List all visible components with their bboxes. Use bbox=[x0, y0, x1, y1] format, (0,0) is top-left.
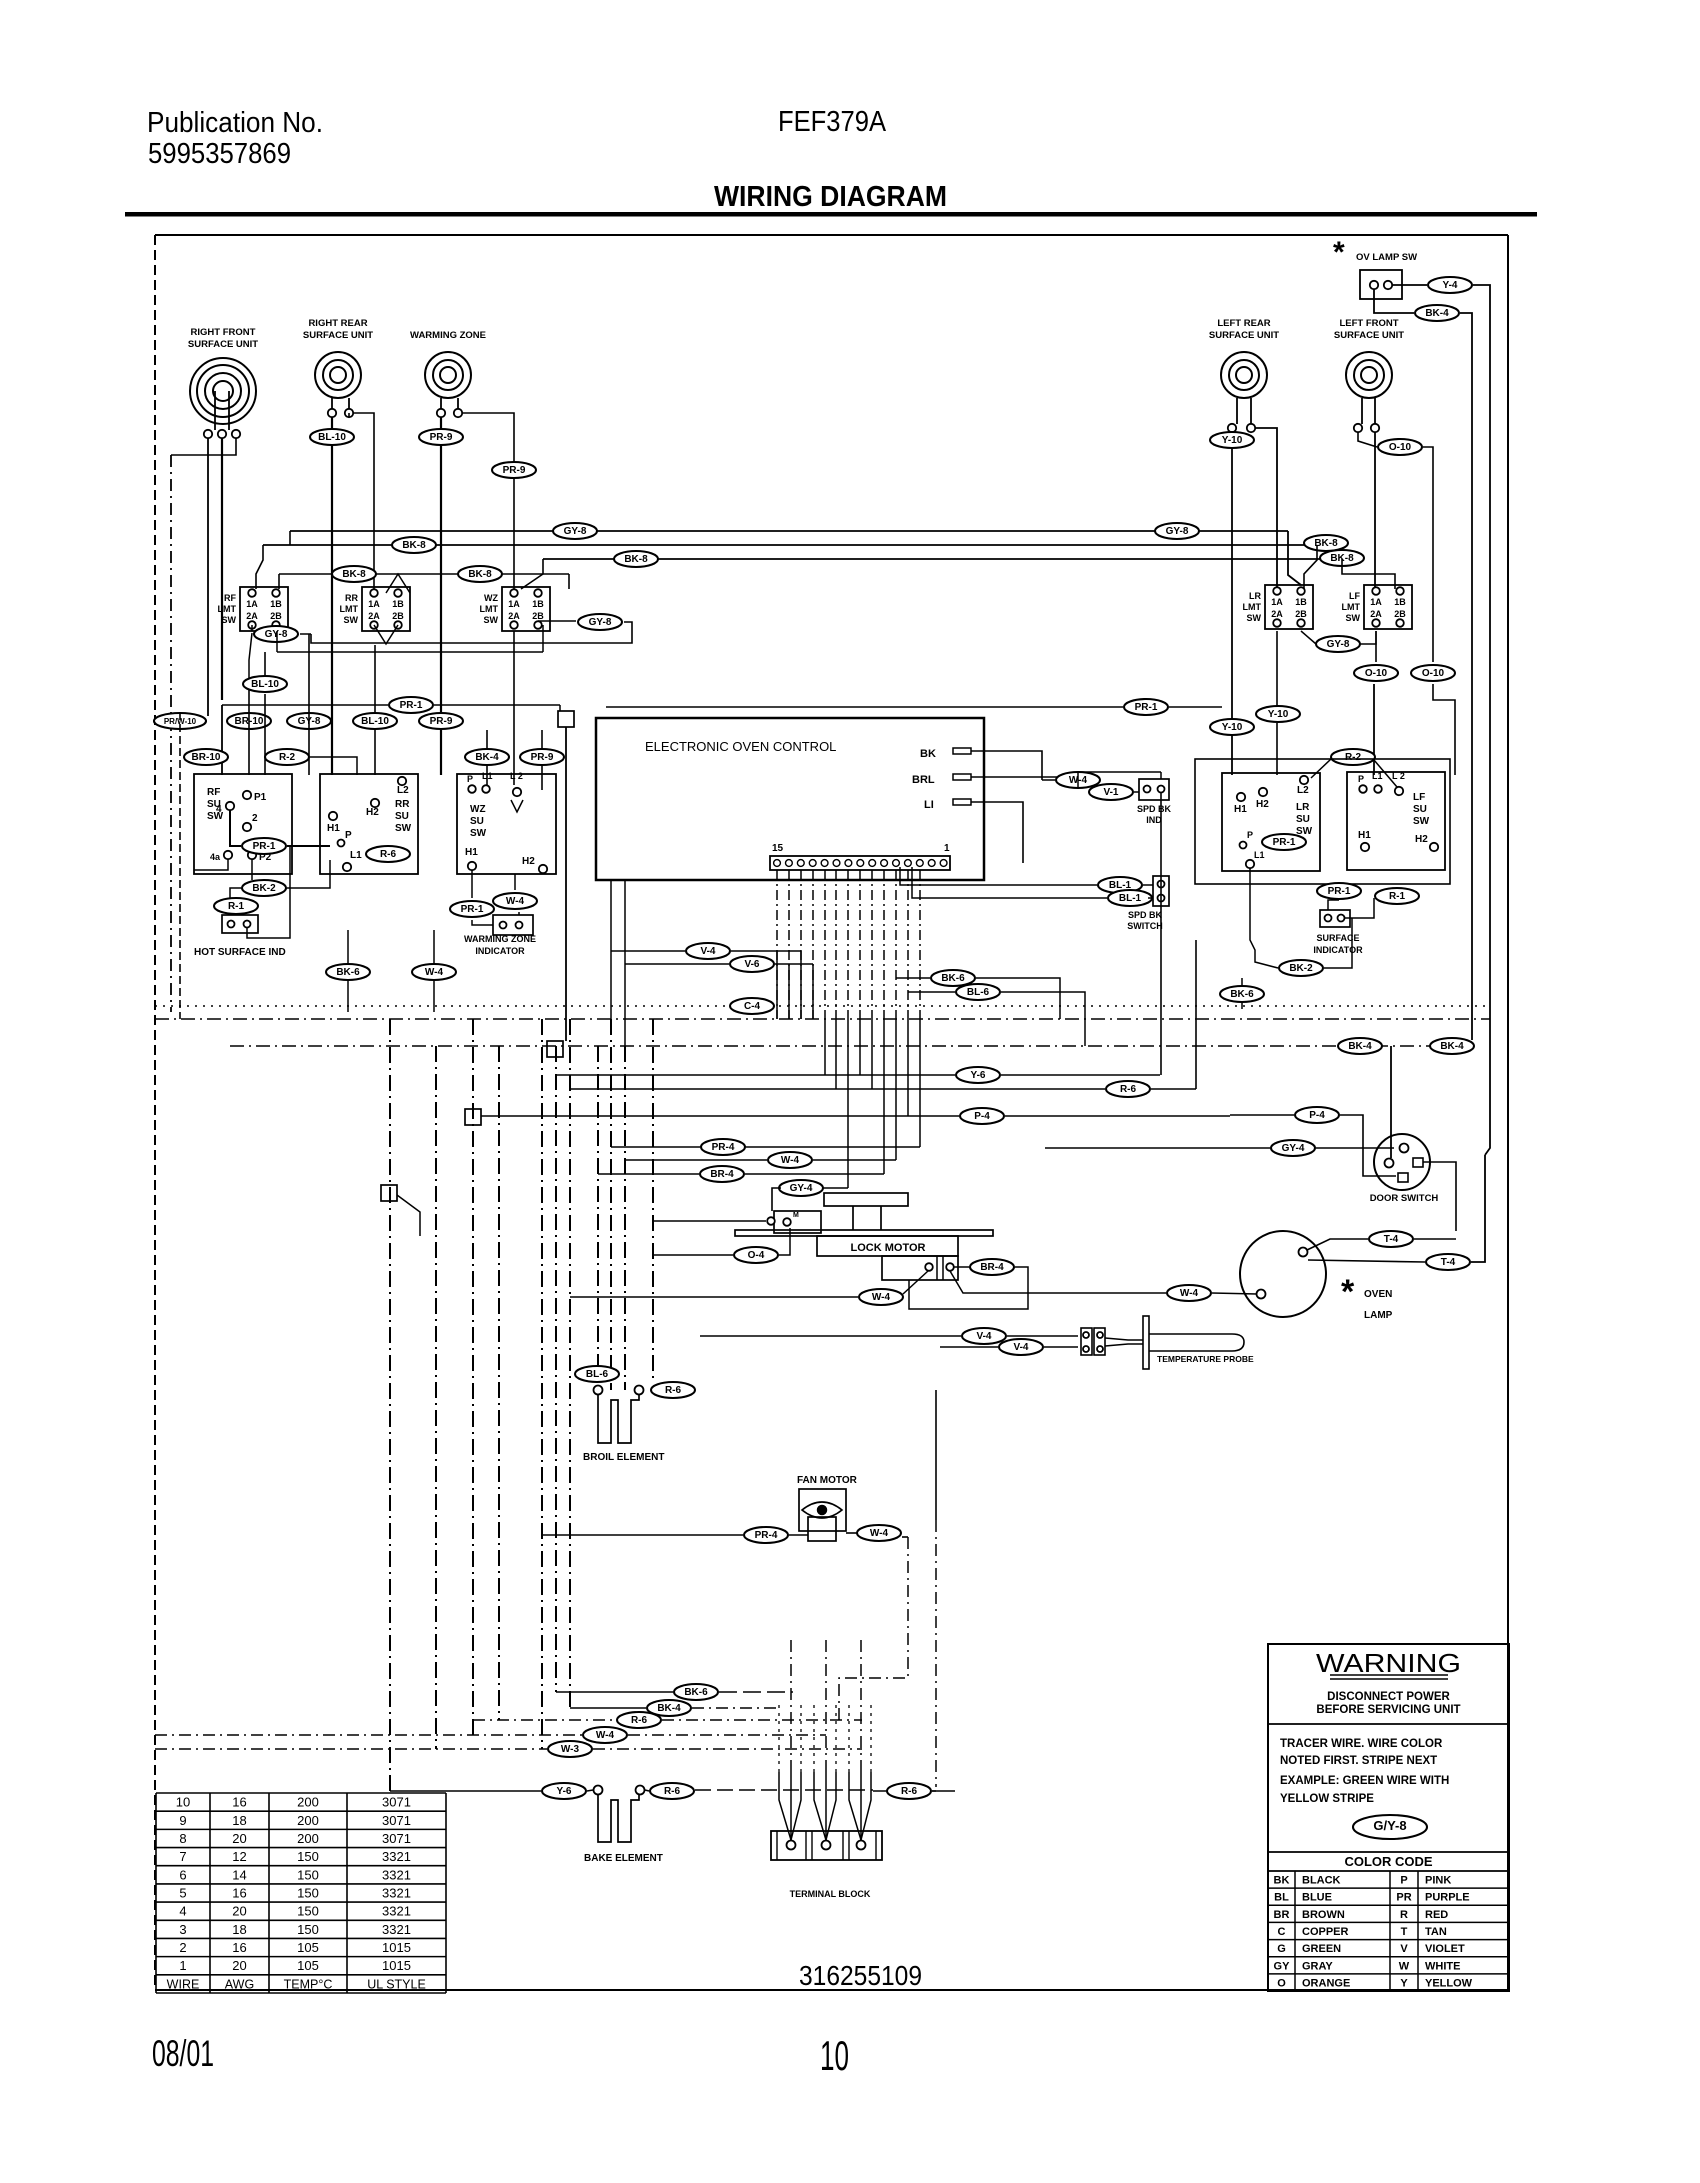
svg-text:P1: P1 bbox=[254, 792, 267, 803]
svg-text:H2: H2 bbox=[1256, 799, 1269, 810]
svg-text:BK-4: BK-4 bbox=[657, 1703, 681, 1714]
svg-text:PR-1: PR-1 bbox=[461, 904, 484, 915]
svg-text:PR-4: PR-4 bbox=[712, 1142, 735, 1153]
svg-text:R-6: R-6 bbox=[1120, 1084, 1137, 1095]
svg-text:BK-4: BK-4 bbox=[475, 752, 499, 763]
svg-text:WIRING DIAGRAM: WIRING DIAGRAM bbox=[714, 181, 947, 213]
svg-text:GY-4: GY-4 bbox=[790, 1183, 813, 1194]
svg-text:RED: RED bbox=[1425, 1909, 1448, 1921]
svg-text:1A: 1A bbox=[1271, 597, 1283, 607]
svg-text:14: 14 bbox=[232, 1867, 246, 1882]
svg-text:2A: 2A bbox=[508, 611, 520, 621]
svg-text:Y-10: Y-10 bbox=[1222, 435, 1243, 446]
svg-text:W-4: W-4 bbox=[781, 1155, 800, 1166]
svg-text:2: 2 bbox=[252, 813, 258, 824]
svg-text:1A: 1A bbox=[368, 599, 380, 609]
svg-text:1B: 1B bbox=[1394, 597, 1406, 607]
svg-text:LF: LF bbox=[1349, 591, 1360, 601]
svg-text:V-4: V-4 bbox=[700, 946, 715, 957]
svg-text:W-4: W-4 bbox=[506, 896, 525, 907]
svg-text:RR: RR bbox=[345, 593, 358, 603]
svg-text:BR-4: BR-4 bbox=[980, 1262, 1004, 1273]
svg-text:RR: RR bbox=[395, 799, 410, 810]
svg-text:C: C bbox=[1278, 1926, 1286, 1938]
svg-text:GY-8: GY-8 bbox=[1166, 526, 1189, 537]
svg-text:PR-1: PR-1 bbox=[400, 700, 423, 711]
svg-text:Publication No.: Publication No. bbox=[147, 107, 323, 139]
svg-text:PR-4: PR-4 bbox=[755, 1530, 778, 1541]
svg-text:GREEN: GREEN bbox=[1302, 1943, 1341, 1955]
svg-text:316255109: 316255109 bbox=[799, 1960, 922, 1991]
svg-text:150: 150 bbox=[297, 1922, 319, 1937]
svg-text:INDICATOR: INDICATOR bbox=[1313, 945, 1363, 955]
svg-text:150: 150 bbox=[297, 1886, 319, 1901]
svg-text:H1: H1 bbox=[327, 823, 340, 834]
svg-text:LI: LI bbox=[924, 799, 934, 811]
svg-text:1015: 1015 bbox=[382, 1958, 411, 1973]
svg-text:H2: H2 bbox=[366, 807, 379, 818]
svg-text:GY-8: GY-8 bbox=[265, 629, 288, 640]
svg-text:2B: 2B bbox=[270, 611, 282, 621]
svg-text:BR-4: BR-4 bbox=[710, 1169, 734, 1180]
svg-text:T-4: T-4 bbox=[1384, 1234, 1399, 1245]
svg-text:R-2: R-2 bbox=[279, 752, 296, 763]
svg-text:TRACER WIRE. WIRE COLOR: TRACER WIRE. WIRE COLOR bbox=[1280, 1738, 1443, 1750]
svg-text:1B: 1B bbox=[270, 599, 282, 609]
svg-text:SW: SW bbox=[395, 823, 412, 834]
svg-text:SW: SW bbox=[470, 828, 487, 839]
svg-text:OVEN: OVEN bbox=[1364, 1289, 1392, 1300]
svg-text:WIRE: WIRE bbox=[167, 1977, 200, 1991]
svg-text:O-4: O-4 bbox=[748, 1250, 765, 1261]
svg-text:PR-9: PR-9 bbox=[503, 465, 526, 476]
svg-text:FAN MOTOR: FAN MOTOR bbox=[797, 1475, 858, 1486]
svg-text:R-6: R-6 bbox=[901, 1786, 918, 1797]
svg-text:ORANGE: ORANGE bbox=[1302, 1977, 1350, 1989]
svg-text:FEF379A: FEF379A bbox=[778, 106, 887, 138]
svg-text:1: 1 bbox=[944, 843, 950, 854]
svg-text:PR-9: PR-9 bbox=[430, 432, 453, 443]
svg-text:LF: LF bbox=[1413, 792, 1425, 803]
svg-text:W-3: W-3 bbox=[561, 1744, 580, 1755]
svg-text:VIOLET: VIOLET bbox=[1425, 1943, 1465, 1955]
svg-text:15: 15 bbox=[772, 843, 784, 854]
svg-text:H2: H2 bbox=[1415, 834, 1428, 845]
svg-text:BK-4: BK-4 bbox=[1440, 1041, 1464, 1052]
svg-text:NOTED FIRST. STRIPE NEXT: NOTED FIRST. STRIPE NEXT bbox=[1280, 1755, 1437, 1767]
svg-text:3321: 3321 bbox=[382, 1886, 411, 1901]
svg-text:1A: 1A bbox=[508, 599, 520, 609]
svg-text:LMT: LMT bbox=[480, 604, 499, 614]
svg-text:INDICATOR: INDICATOR bbox=[475, 946, 525, 956]
svg-text:Y-10: Y-10 bbox=[1222, 722, 1243, 733]
svg-text:6: 6 bbox=[179, 1867, 186, 1882]
svg-text:BROWN: BROWN bbox=[1302, 1909, 1345, 1921]
svg-text:P-4: P-4 bbox=[1309, 1110, 1325, 1121]
svg-text:PURPLE: PURPLE bbox=[1425, 1892, 1470, 1904]
svg-text:BL-10: BL-10 bbox=[361, 716, 389, 727]
svg-text:ELECTRONIC OVEN CONTROL: ELECTRONIC OVEN CONTROL bbox=[645, 739, 836, 754]
svg-text:BK-8: BK-8 bbox=[468, 569, 492, 580]
svg-text:COPPER: COPPER bbox=[1302, 1926, 1349, 1938]
svg-text:9: 9 bbox=[179, 1813, 186, 1828]
svg-text:BL: BL bbox=[1274, 1892, 1289, 1904]
svg-text:BLACK: BLACK bbox=[1302, 1875, 1341, 1887]
svg-text:Y-10: Y-10 bbox=[1268, 709, 1289, 720]
svg-text:BR-10: BR-10 bbox=[192, 752, 221, 763]
svg-text:UL STYLE: UL STYLE bbox=[367, 1977, 426, 1991]
svg-text:LMT: LMT bbox=[1342, 602, 1361, 612]
svg-text:GY-8: GY-8 bbox=[1327, 639, 1350, 650]
svg-text:SU: SU bbox=[395, 811, 409, 822]
svg-text:12: 12 bbox=[232, 1849, 246, 1864]
svg-text:BK-8: BK-8 bbox=[402, 540, 426, 551]
svg-text:18: 18 bbox=[232, 1813, 246, 1828]
svg-text:4: 4 bbox=[179, 1904, 186, 1919]
svg-text:3071: 3071 bbox=[382, 1813, 411, 1828]
svg-text:LAMP: LAMP bbox=[1364, 1310, 1393, 1321]
svg-text:M: M bbox=[793, 1212, 799, 1219]
svg-text:R-6: R-6 bbox=[664, 1786, 681, 1797]
svg-text:R-6: R-6 bbox=[665, 1385, 682, 1396]
svg-text:150: 150 bbox=[297, 1904, 319, 1919]
svg-text:P: P bbox=[1247, 830, 1253, 840]
svg-text:SPD BK: SPD BK bbox=[1128, 910, 1163, 920]
svg-text:BROIL ELEMENT: BROIL ELEMENT bbox=[583, 1452, 664, 1463]
svg-text:P: P bbox=[345, 830, 352, 841]
svg-text:V: V bbox=[1400, 1943, 1408, 1955]
svg-text:SURFACE UNIT: SURFACE UNIT bbox=[188, 339, 258, 350]
svg-text:BK: BK bbox=[1274, 1875, 1290, 1887]
svg-text:4a: 4a bbox=[210, 852, 221, 862]
svg-text:SW: SW bbox=[1247, 613, 1262, 623]
svg-text:LEFT FRONT: LEFT FRONT bbox=[1339, 318, 1398, 329]
svg-text:GY-4: GY-4 bbox=[1282, 1143, 1305, 1154]
svg-text:8: 8 bbox=[179, 1831, 186, 1846]
svg-text:L1: L1 bbox=[482, 771, 493, 781]
svg-text:SURFACE UNIT: SURFACE UNIT bbox=[1334, 330, 1404, 341]
svg-text:BL-6: BL-6 bbox=[586, 1369, 609, 1380]
svg-text:BK-4: BK-4 bbox=[1425, 308, 1449, 319]
svg-text:LMT: LMT bbox=[218, 604, 237, 614]
svg-text:1B: 1B bbox=[392, 599, 404, 609]
svg-text:5: 5 bbox=[179, 1886, 186, 1901]
svg-text:3321: 3321 bbox=[382, 1904, 411, 1919]
svg-text:PR-1: PR-1 bbox=[1135, 702, 1158, 713]
svg-text:LMT: LMT bbox=[1243, 602, 1262, 612]
svg-text:200: 200 bbox=[297, 1831, 319, 1846]
svg-text:V-1: V-1 bbox=[1103, 787, 1118, 798]
svg-text:*: * bbox=[1333, 236, 1345, 269]
svg-text:PR-1: PR-1 bbox=[1328, 886, 1351, 897]
svg-text:WZ: WZ bbox=[484, 593, 498, 603]
svg-text:2A: 2A bbox=[1271, 609, 1283, 619]
svg-text:BL-10: BL-10 bbox=[318, 432, 346, 443]
svg-text:PINK: PINK bbox=[1425, 1875, 1451, 1887]
svg-text:RIGHT REAR: RIGHT REAR bbox=[308, 318, 367, 329]
svg-text:BL-6: BL-6 bbox=[967, 987, 990, 998]
svg-text:150: 150 bbox=[297, 1849, 319, 1864]
svg-text:YELLOW STRIPE: YELLOW STRIPE bbox=[1280, 1793, 1374, 1805]
svg-text:Y-6: Y-6 bbox=[970, 1070, 985, 1081]
svg-text:SPD BK: SPD BK bbox=[1137, 804, 1172, 814]
svg-text:08/01: 08/01 bbox=[152, 2033, 214, 2074]
svg-text:W-4: W-4 bbox=[1180, 1288, 1199, 1299]
svg-text:COLOR CODE: COLOR CODE bbox=[1344, 1854, 1432, 1869]
svg-text:G: G bbox=[1277, 1943, 1286, 1955]
svg-text:20: 20 bbox=[232, 1831, 246, 1846]
svg-text:L1: L1 bbox=[1372, 771, 1383, 781]
svg-text:2B: 2B bbox=[532, 611, 544, 621]
svg-text:BK-8: BK-8 bbox=[1314, 538, 1338, 549]
svg-text:1A: 1A bbox=[246, 599, 258, 609]
svg-text:L1: L1 bbox=[350, 850, 362, 861]
svg-text:SURFACE: SURFACE bbox=[1316, 933, 1359, 943]
svg-text:SURFACE UNIT: SURFACE UNIT bbox=[303, 330, 373, 341]
svg-text:SU: SU bbox=[1413, 804, 1427, 815]
svg-text:RIGHT FRONT: RIGHT FRONT bbox=[191, 327, 256, 338]
svg-text:WZ: WZ bbox=[470, 804, 486, 815]
svg-text:LOCK MOTOR: LOCK MOTOR bbox=[851, 1242, 926, 1254]
svg-text:O-10: O-10 bbox=[1365, 668, 1388, 679]
svg-text:3321: 3321 bbox=[382, 1922, 411, 1937]
svg-text:RF: RF bbox=[224, 593, 236, 603]
svg-text:V-6: V-6 bbox=[744, 959, 759, 970]
svg-text:WARMING ZONE: WARMING ZONE bbox=[464, 934, 536, 944]
svg-text:2B: 2B bbox=[1295, 609, 1307, 619]
svg-text:P: P bbox=[1400, 1875, 1407, 1887]
svg-text:Y-6: Y-6 bbox=[556, 1786, 571, 1797]
svg-text:WARMING ZONE: WARMING ZONE bbox=[410, 330, 486, 341]
svg-text:R-2: R-2 bbox=[1345, 752, 1362, 763]
svg-text:L 2: L 2 bbox=[510, 771, 523, 781]
svg-text:BK-2: BK-2 bbox=[1289, 963, 1313, 974]
svg-text:BRL: BRL bbox=[912, 774, 935, 786]
svg-text:PR: PR bbox=[1396, 1892, 1411, 1904]
svg-text:T: T bbox=[1401, 1926, 1408, 1938]
svg-text:16: 16 bbox=[232, 1940, 246, 1955]
svg-text:Y: Y bbox=[1400, 1977, 1408, 1989]
svg-text:O-10: O-10 bbox=[1389, 442, 1412, 453]
svg-text:10: 10 bbox=[176, 1795, 190, 1810]
svg-text:V-4: V-4 bbox=[976, 1331, 991, 1342]
svg-text:4: 4 bbox=[216, 804, 222, 815]
svg-text:SW: SW bbox=[484, 615, 499, 625]
svg-text:G/Y-8: G/Y-8 bbox=[1373, 1818, 1406, 1833]
svg-text:YELLOW: YELLOW bbox=[1425, 1977, 1473, 1989]
svg-text:SW: SW bbox=[344, 615, 359, 625]
svg-text:H1: H1 bbox=[465, 847, 478, 858]
svg-text:2A: 2A bbox=[246, 611, 258, 621]
svg-text:PR-1: PR-1 bbox=[253, 841, 276, 852]
svg-text:18: 18 bbox=[232, 1922, 246, 1937]
svg-text:PR-9: PR-9 bbox=[430, 716, 453, 727]
svg-text:2A: 2A bbox=[368, 611, 380, 621]
svg-text:R: R bbox=[1400, 1909, 1408, 1921]
svg-text:3321: 3321 bbox=[382, 1849, 411, 1864]
svg-text:L 2: L 2 bbox=[1392, 771, 1405, 781]
svg-text:10: 10 bbox=[820, 2032, 849, 2079]
svg-text:3321: 3321 bbox=[382, 1867, 411, 1882]
svg-text:1A: 1A bbox=[1370, 597, 1382, 607]
svg-text:TEMPERATURE PROBE: TEMPERATURE PROBE bbox=[1157, 1354, 1254, 1364]
svg-text:R-6: R-6 bbox=[631, 1715, 648, 1726]
svg-text:BK-6: BK-6 bbox=[941, 973, 965, 984]
svg-text:TEMP°C: TEMP°C bbox=[284, 1977, 333, 1991]
svg-text:P: P bbox=[467, 774, 473, 784]
svg-text:W: W bbox=[1399, 1960, 1410, 1972]
svg-text:SU: SU bbox=[470, 816, 484, 827]
svg-text:AWG: AWG bbox=[225, 1977, 254, 1991]
svg-text:IND: IND bbox=[1146, 815, 1162, 825]
svg-text:WARNING: WARNING bbox=[1316, 1648, 1461, 1678]
svg-text:EXAMPLE: GREEN WIRE WITH: EXAMPLE: GREEN WIRE WITH bbox=[1280, 1775, 1449, 1787]
svg-text:GY-8: GY-8 bbox=[589, 617, 612, 628]
svg-text:BK-8: BK-8 bbox=[624, 554, 648, 565]
svg-text:7: 7 bbox=[179, 1849, 186, 1864]
svg-text:TAN: TAN bbox=[1425, 1926, 1447, 1938]
svg-text:W-4: W-4 bbox=[425, 967, 444, 978]
svg-text:WHITE: WHITE bbox=[1425, 1960, 1460, 1972]
svg-text:BK-6: BK-6 bbox=[336, 967, 360, 978]
svg-text:BK-6: BK-6 bbox=[1230, 989, 1254, 1000]
svg-text:105: 105 bbox=[297, 1940, 319, 1955]
svg-text:LR: LR bbox=[1296, 802, 1310, 813]
svg-text:2B: 2B bbox=[392, 611, 404, 621]
svg-text:BL-10: BL-10 bbox=[251, 679, 279, 690]
svg-text:20: 20 bbox=[232, 1958, 246, 1973]
svg-text:R-1: R-1 bbox=[1389, 891, 1406, 902]
svg-text:1B: 1B bbox=[1295, 597, 1307, 607]
svg-text:2A: 2A bbox=[1370, 609, 1382, 619]
svg-text:BK: BK bbox=[920, 748, 936, 760]
svg-text:1: 1 bbox=[179, 1958, 186, 1973]
svg-text:L1: L1 bbox=[1254, 850, 1265, 860]
svg-text:BR: BR bbox=[1274, 1909, 1290, 1921]
svg-text:2: 2 bbox=[179, 1940, 186, 1955]
svg-text:BK-8: BK-8 bbox=[342, 569, 366, 580]
svg-text:L2: L2 bbox=[397, 785, 409, 796]
svg-text:LMT: LMT bbox=[340, 604, 359, 614]
svg-text:R-6: R-6 bbox=[380, 849, 397, 860]
svg-text:1B: 1B bbox=[532, 599, 544, 609]
svg-text:L2: L2 bbox=[1297, 785, 1309, 796]
svg-text:SURFACE UNIT: SURFACE UNIT bbox=[1209, 330, 1279, 341]
svg-text:LR: LR bbox=[1249, 591, 1261, 601]
svg-text:GRAY: GRAY bbox=[1302, 1960, 1333, 1972]
svg-text:16: 16 bbox=[232, 1886, 246, 1901]
svg-text:DISCONNECT POWER: DISCONNECT POWER bbox=[1327, 1691, 1450, 1703]
svg-text:T-4: T-4 bbox=[1441, 1257, 1456, 1268]
svg-text:*: * bbox=[1341, 1273, 1355, 1311]
svg-text:P-4: P-4 bbox=[974, 1111, 990, 1122]
svg-text:5995357869: 5995357869 bbox=[148, 138, 291, 170]
svg-text:H1: H1 bbox=[1358, 830, 1371, 841]
svg-text:BK-4: BK-4 bbox=[1348, 1041, 1372, 1052]
svg-text:P: P bbox=[1358, 774, 1364, 784]
svg-text:SW: SW bbox=[222, 615, 237, 625]
svg-text:200: 200 bbox=[297, 1795, 319, 1810]
svg-text:SWITCH: SWITCH bbox=[1127, 921, 1163, 931]
svg-text:LEFT REAR: LEFT REAR bbox=[1217, 318, 1270, 329]
svg-text:3071: 3071 bbox=[382, 1831, 411, 1846]
svg-text:SW: SW bbox=[1413, 816, 1430, 827]
svg-text:BEFORE SERVICING UNIT: BEFORE SERVICING UNIT bbox=[1316, 1704, 1460, 1716]
svg-text:2B: 2B bbox=[1394, 609, 1406, 619]
svg-text:BAKE ELEMENT: BAKE ELEMENT bbox=[584, 1853, 663, 1864]
svg-text:GY: GY bbox=[1274, 1960, 1291, 1972]
svg-text:W-4: W-4 bbox=[596, 1730, 615, 1741]
svg-text:16: 16 bbox=[232, 1795, 246, 1810]
svg-text:V-4: V-4 bbox=[1013, 1342, 1028, 1353]
svg-text:BK-2: BK-2 bbox=[252, 883, 276, 894]
svg-text:GY-8: GY-8 bbox=[564, 526, 587, 537]
svg-text:1015: 1015 bbox=[382, 1940, 411, 1955]
svg-text:20: 20 bbox=[232, 1904, 246, 1919]
svg-text:BL-1: BL-1 bbox=[1119, 893, 1142, 904]
svg-text:R-1: R-1 bbox=[228, 901, 245, 912]
svg-text:3071: 3071 bbox=[382, 1795, 411, 1810]
svg-text:O-10: O-10 bbox=[1422, 668, 1445, 679]
svg-text:RF: RF bbox=[207, 787, 220, 798]
svg-text:Y-4: Y-4 bbox=[1442, 280, 1457, 291]
svg-text:SU: SU bbox=[1296, 814, 1310, 825]
svg-text:SW: SW bbox=[1346, 613, 1361, 623]
svg-text:105: 105 bbox=[297, 1958, 319, 1973]
svg-text:O: O bbox=[1277, 1977, 1286, 1989]
svg-text:PR-9: PR-9 bbox=[531, 752, 554, 763]
svg-text:W-4: W-4 bbox=[872, 1292, 891, 1303]
svg-text:150: 150 bbox=[297, 1867, 319, 1882]
svg-text:DOOR SWITCH: DOOR SWITCH bbox=[1370, 1193, 1439, 1204]
svg-text:3: 3 bbox=[179, 1922, 186, 1937]
svg-text:PR-1: PR-1 bbox=[1273, 837, 1296, 848]
svg-text:200: 200 bbox=[297, 1813, 319, 1828]
svg-text:W-4: W-4 bbox=[870, 1528, 889, 1539]
svg-text:H1: H1 bbox=[1234, 804, 1247, 815]
svg-text:BK-6: BK-6 bbox=[684, 1687, 708, 1698]
svg-text:BLUE: BLUE bbox=[1302, 1892, 1332, 1904]
svg-text:C-4: C-4 bbox=[744, 1001, 761, 1012]
svg-text:H2: H2 bbox=[522, 856, 535, 867]
svg-text:TERMINAL BLOCK: TERMINAL BLOCK bbox=[790, 1889, 871, 1899]
svg-text:OV LAMP SW: OV LAMP SW bbox=[1356, 252, 1417, 263]
svg-text:HOT SURFACE IND: HOT SURFACE IND bbox=[194, 947, 286, 958]
